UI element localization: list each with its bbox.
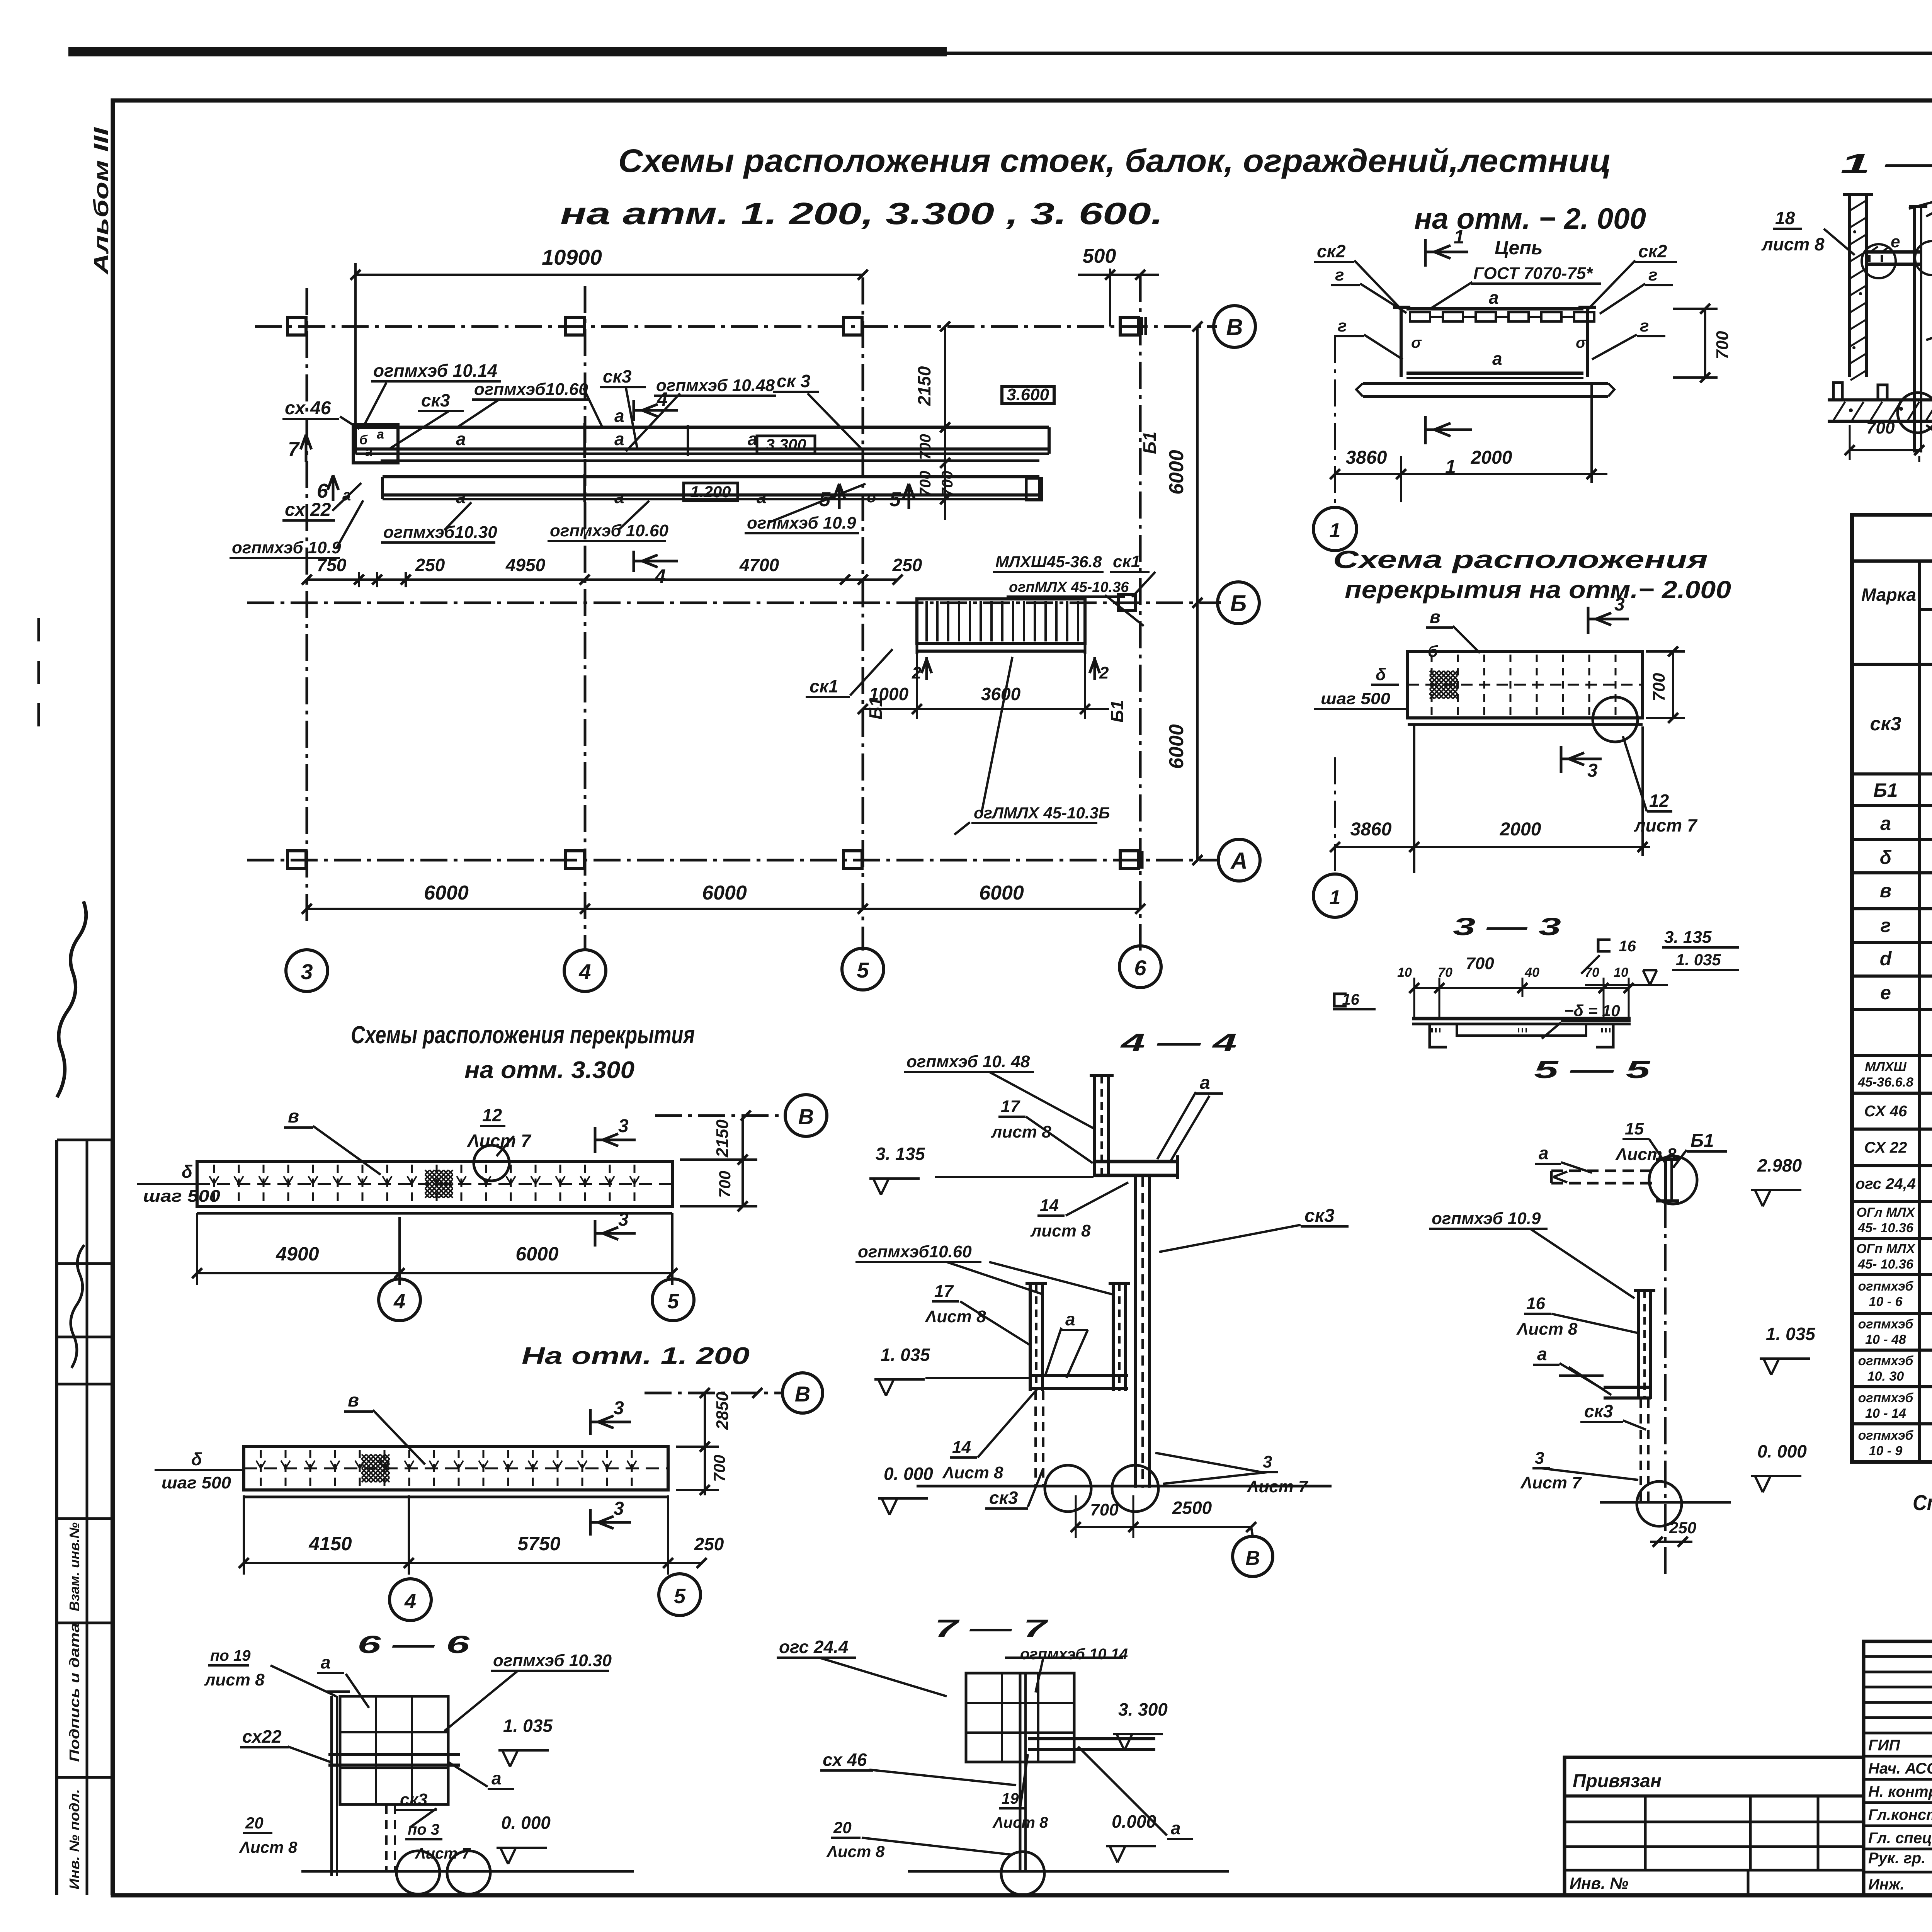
- svg-text:250: 250: [415, 555, 445, 575]
- svg-text:огпмхэб: огпмхэб: [1858, 1317, 1914, 1332]
- svg-text:1: 1: [1454, 226, 1464, 248]
- svg-text:3: 3: [1535, 1449, 1544, 1468]
- svg-text:2500: 2500: [1172, 1498, 1212, 1518]
- svg-text:3: 3: [1263, 1452, 1272, 1471]
- svg-text:10 - 48: 10 - 48: [1865, 1332, 1906, 1347]
- svg-text:лист 8: лист 8: [1030, 1221, 1091, 1240]
- svg-text:огпмхэб 10.30: огпмхэб 10.30: [493, 1651, 612, 1670]
- svg-text:2: 2: [1099, 663, 1109, 682]
- svg-text:в: в: [1430, 607, 1440, 627]
- svg-text:6000: 6000: [1165, 724, 1188, 769]
- svg-text:18: 18: [1775, 208, 1795, 228]
- svg-text:4: 4: [404, 1590, 416, 1613]
- svg-text:6000: 6000: [979, 882, 1024, 904]
- svg-text:Марка: Марка: [1861, 585, 1916, 605]
- svg-text:Схемы расположения стоек, б: Схемы расположения стоек, балок, огражде…: [618, 143, 1611, 179]
- svg-text:10900: 10900: [542, 245, 602, 269]
- svg-text:5: 5: [674, 1585, 686, 1608]
- svg-text:σ: σ: [1576, 334, 1587, 351]
- svg-text:700: 700: [1090, 1500, 1119, 1519]
- svg-text:лист 8: лист 8: [1761, 234, 1825, 254]
- svg-text:ск3: ск3: [989, 1488, 1018, 1508]
- svg-text:6000: 6000: [515, 1243, 558, 1265]
- svg-text:ск 3: ск 3: [777, 371, 811, 391]
- svg-text:0. 000: 0. 000: [501, 1813, 551, 1833]
- svg-text:а: а: [1489, 287, 1499, 308]
- svg-text:в: в: [348, 1390, 359, 1411]
- svg-text:700: 700: [917, 434, 934, 460]
- svg-text:е: е: [1880, 982, 1891, 1003]
- svg-text:Б1: Б1: [1873, 779, 1898, 801]
- svg-text:СХ 46: СХ 46: [1864, 1103, 1907, 1120]
- svg-text:250: 250: [892, 555, 922, 575]
- svg-text:На отм. 1. 200: На отм. 1. 200: [522, 1343, 750, 1369]
- svg-text:ск2: ск2: [1317, 241, 1346, 261]
- svg-text:а: а: [614, 406, 624, 426]
- svg-text:2000: 2000: [1471, 447, 1512, 468]
- svg-text:3.600: 3.600: [1007, 385, 1049, 404]
- svg-text:16: 16: [1526, 1294, 1545, 1313]
- svg-text:δ: δ: [191, 1449, 202, 1469]
- svg-text:сх 22: сх 22: [285, 500, 331, 520]
- svg-text:огпМЛХ 45-10.36: огпМЛХ 45-10.36: [1009, 579, 1129, 595]
- svg-text:огпмхэб: огпмхэб: [1858, 1428, 1914, 1443]
- svg-text:10 - 6: 10 - 6: [1869, 1294, 1903, 1309]
- svg-text:ск1: ск1: [810, 676, 838, 696]
- svg-text:Б1: Б1: [1107, 700, 1127, 723]
- svg-text:огпмхэб 10. 48: огпмхэб 10. 48: [906, 1052, 1030, 1071]
- svg-text:в: в: [1880, 880, 1891, 901]
- svg-text:Подпись и дата: Подпись и дата: [66, 1623, 82, 1762]
- svg-text:а: а: [1880, 813, 1891, 834]
- svg-text:огпмхэб 10.60: огпмхэб 10.60: [550, 521, 668, 540]
- svg-text:ГИП: ГИП: [1868, 1737, 1900, 1754]
- svg-text:4: 4: [578, 959, 591, 984]
- svg-text:Инв. №: Инв. №: [1570, 1874, 1628, 1892]
- svg-text:ск1: ск1: [1113, 552, 1140, 571]
- svg-text:ск3: ск3: [400, 1790, 427, 1809]
- svg-text:3 — 3: 3 — 3: [1453, 913, 1561, 940]
- svg-text:е: е: [1891, 232, 1900, 251]
- svg-text:В: В: [795, 1382, 810, 1406]
- svg-text:σ: σ: [867, 489, 878, 506]
- svg-text:огпмхэб 10.48: огпмхэб 10.48: [656, 376, 775, 395]
- svg-text:0. 000: 0. 000: [884, 1464, 933, 1484]
- svg-text:10 - 14: 10 - 14: [1865, 1406, 1906, 1421]
- svg-text:а: а: [1200, 1073, 1210, 1093]
- svg-text:огпмхэб10.60: огпмхэб10.60: [858, 1242, 972, 1261]
- svg-text:700: 700: [716, 1171, 734, 1198]
- svg-text:δ: δ: [1880, 847, 1892, 868]
- svg-text:огпмхэб: огпмхэб: [1858, 1279, 1914, 1294]
- svg-text:Λист 8: Λист 8: [1516, 1320, 1578, 1338]
- svg-text:1. 035: 1. 035: [881, 1345, 930, 1365]
- svg-text:а: а: [614, 429, 624, 449]
- svg-text:5 — 5: 5 — 5: [1534, 1056, 1651, 1083]
- svg-text:В: В: [1245, 1547, 1260, 1570]
- svg-text:на отм. − 2. 000: на отм. − 2. 000: [1414, 202, 1646, 235]
- svg-text:ОГп МЛХ: ОГп МЛХ: [1856, 1242, 1916, 1256]
- svg-text:Λист 8: Λист 8: [239, 1838, 298, 1856]
- svg-text:а: а: [1065, 1309, 1075, 1329]
- svg-text:В: В: [1226, 314, 1243, 340]
- svg-text:15: 15: [1625, 1119, 1644, 1138]
- svg-text:по 19: по 19: [210, 1647, 251, 1664]
- svg-text:δ: δ: [182, 1162, 193, 1182]
- svg-text:2150: 2150: [914, 366, 934, 406]
- svg-text:7: 7: [288, 438, 300, 461]
- svg-text:4900: 4900: [276, 1243, 319, 1265]
- svg-text:огЛМЛХ 45-10.3Б: огЛМЛХ 45-10.3Б: [974, 804, 1110, 822]
- svg-text:а: а: [365, 444, 372, 459]
- svg-text:6: 6: [317, 480, 328, 502]
- svg-text:а: а: [1539, 1143, 1549, 1163]
- svg-text:6: 6: [1134, 956, 1146, 980]
- svg-text:Взам. инв.№: Взам. инв.№: [66, 1522, 82, 1611]
- svg-text:500: 500: [1083, 245, 1116, 267]
- svg-text:Альбом III: Альбом III: [90, 127, 113, 276]
- svg-text:700: 700: [917, 471, 934, 497]
- svg-text:а: а: [456, 487, 466, 507]
- svg-text:4: 4: [655, 565, 666, 587]
- svg-text:а: а: [1171, 1818, 1181, 1838]
- svg-text:4 — 4: 4 — 4: [1119, 1029, 1237, 1056]
- svg-text:лист 8: лист 8: [991, 1122, 1051, 1141]
- svg-text:2.980: 2.980: [1757, 1155, 1802, 1175]
- svg-text:5750: 5750: [517, 1533, 560, 1554]
- svg-text:14: 14: [1040, 1196, 1059, 1215]
- svg-text:17: 17: [1001, 1097, 1020, 1116]
- svg-text:6000: 6000: [702, 882, 747, 904]
- svg-text:700: 700: [1713, 331, 1732, 359]
- svg-text:ск3: ск3: [603, 366, 632, 386]
- svg-text:700: 700: [1866, 418, 1895, 437]
- svg-text:Цепь: Цепь: [1495, 237, 1543, 259]
- svg-text:сх22: сх22: [242, 1726, 282, 1747]
- svg-text:17: 17: [934, 1282, 954, 1301]
- svg-text:−δ = 10: −δ = 10: [1564, 1002, 1620, 1020]
- svg-text:3: 3: [618, 1209, 629, 1230]
- svg-text:4150: 4150: [308, 1533, 352, 1554]
- svg-text:45- 10.36: 45- 10.36: [1857, 1221, 1914, 1235]
- svg-text:δ: δ: [1376, 665, 1386, 684]
- svg-text:20: 20: [833, 1818, 852, 1837]
- svg-text:огпмхэб10.60: огпмхэб10.60: [474, 380, 588, 399]
- svg-text:лист 8: лист 8: [204, 1670, 265, 1689]
- svg-text:10 - 9: 10 - 9: [1869, 1444, 1903, 1458]
- svg-text:3: 3: [618, 1116, 629, 1136]
- svg-text:по 3: по 3: [408, 1821, 439, 1838]
- svg-text:3.300: 3.300: [765, 435, 806, 454]
- svg-text:5: 5: [857, 958, 869, 982]
- svg-text:250: 250: [1669, 1519, 1696, 1537]
- svg-text:3600: 3600: [981, 684, 1021, 704]
- svg-text:г: г: [1335, 265, 1344, 284]
- svg-text:19: 19: [1002, 1790, 1019, 1807]
- svg-text:1.200: 1.200: [690, 483, 731, 501]
- svg-text:а: а: [1492, 349, 1502, 369]
- svg-text:20: 20: [245, 1814, 264, 1832]
- svg-text:огпмхэб: огпмхэб: [1858, 1391, 1914, 1405]
- svg-text:Гл.констр.: Гл.констр.: [1868, 1806, 1932, 1823]
- svg-text:40: 40: [1524, 965, 1539, 980]
- svg-text:а: а: [1537, 1344, 1547, 1364]
- svg-text:Н. контр.: Н. контр.: [1868, 1783, 1932, 1800]
- svg-text:Б1: Б1: [1139, 432, 1160, 454]
- svg-text:б: б: [1428, 642, 1438, 660]
- svg-text:В: В: [798, 1104, 814, 1129]
- svg-text:на отм. 3.300: на отм. 3.300: [464, 1057, 634, 1083]
- svg-text:огпмхэб 10.14: огпмхэб 10.14: [1020, 1646, 1128, 1663]
- svg-text:Λист 8: Λист 8: [942, 1463, 1003, 1482]
- svg-text:700: 700: [1650, 673, 1668, 701]
- svg-text:МЛХШ45-36.8: МЛХШ45-36.8: [995, 553, 1102, 571]
- svg-text:огпмхэб 10.9: огпмхэб 10.9: [747, 514, 856, 532]
- svg-text:Инв. № подл.: Инв. № подл.: [66, 1789, 82, 1889]
- svg-text:10: 10: [1397, 965, 1412, 980]
- svg-text:1: 1: [1330, 886, 1341, 909]
- svg-text:шаг 500: шаг 500: [1321, 689, 1390, 707]
- svg-text:3. 135: 3. 135: [1664, 928, 1712, 947]
- svg-text:а: а: [456, 429, 466, 449]
- svg-text:3. 300: 3. 300: [1118, 1699, 1168, 1719]
- svg-text:10: 10: [1614, 965, 1628, 980]
- svg-text:700: 700: [939, 471, 956, 497]
- svg-text:огпмхэб 10.14: огпмхэб 10.14: [373, 361, 497, 381]
- svg-text:Рук. гр.: Рук. гр.: [1868, 1850, 1925, 1867]
- svg-text:а: а: [614, 487, 624, 507]
- svg-text:3860: 3860: [1346, 447, 1387, 468]
- svg-text:ск3: ск3: [1584, 1401, 1613, 1421]
- svg-text:Λист 8: Λист 8: [826, 1842, 885, 1861]
- svg-text:на атм. 1. 200, 3.300 , 3.: на атм. 1. 200, 3.300 , 3. 600.: [560, 196, 1163, 231]
- svg-text:1000: 1000: [869, 684, 909, 704]
- svg-text:а: а: [757, 487, 767, 507]
- svg-text:0.000: 0.000: [1112, 1811, 1156, 1832]
- svg-text:σ: σ: [1411, 334, 1422, 351]
- svg-text:ск2: ск2: [1638, 241, 1667, 261]
- svg-text:огпмхэб: огпмхэб: [1858, 1354, 1914, 1368]
- svg-text:3860: 3860: [1350, 819, 1392, 840]
- svg-text:Инж.: Инж.: [1868, 1876, 1905, 1893]
- svg-text:г: г: [1648, 265, 1657, 284]
- svg-text:Гл. спец.: Гл. спец.: [1868, 1830, 1932, 1847]
- svg-text:сх 46: сх 46: [285, 398, 331, 418]
- svg-text:5: 5: [667, 1290, 679, 1313]
- svg-text:d: d: [1880, 948, 1892, 969]
- svg-text:3. 135: 3. 135: [876, 1144, 925, 1164]
- svg-text:3: 3: [614, 1498, 624, 1519]
- svg-text:Стойку СК2 смотреть лист 4: Стойку СК2 смотреть лист 4: [1913, 1490, 1932, 1515]
- svg-text:6000: 6000: [424, 882, 469, 904]
- svg-text:1. 035: 1. 035: [1766, 1324, 1816, 1344]
- svg-text:Схемы расположения перекрыти: Схемы расположения перекрытия: [351, 1021, 695, 1049]
- svg-text:шаг 500: шаг 500: [143, 1187, 221, 1206]
- svg-text:1. 035: 1. 035: [503, 1716, 553, 1736]
- svg-text:1: 1: [1330, 519, 1341, 542]
- svg-text:10. 30: 10. 30: [1867, 1369, 1904, 1384]
- svg-text:4: 4: [393, 1290, 405, 1313]
- svg-text:ск3: ск3: [1304, 1206, 1335, 1226]
- svg-text:0. 000: 0. 000: [1757, 1441, 1807, 1461]
- svg-text:4700: 4700: [739, 555, 779, 575]
- svg-text:сх 46: сх 46: [823, 1750, 867, 1770]
- svg-text:16: 16: [1614, 938, 1636, 955]
- svg-text:а: а: [377, 427, 384, 442]
- svg-text:ск3: ск3: [421, 390, 450, 410]
- svg-text:огпмхэб 10.9: огпмхэб 10.9: [232, 538, 341, 557]
- svg-text:700: 700: [1466, 954, 1494, 973]
- svg-text:МЛХШ: МЛХШ: [1865, 1060, 1906, 1074]
- svg-text:1. 035: 1. 035: [1676, 951, 1721, 969]
- svg-text:Λист 7: Λист 7: [415, 1845, 471, 1862]
- svg-text:А: А: [1230, 848, 1247, 874]
- svg-text:ГОСТ 7070-75*: ГОСТ 7070-75*: [1473, 264, 1593, 283]
- svg-text:14: 14: [952, 1438, 971, 1457]
- svg-text:Б1: Б1: [1690, 1131, 1714, 1151]
- svg-text:огпмхэб 10.9: огпмхэб 10.9: [1432, 1209, 1541, 1228]
- svg-text:Б: Б: [1230, 590, 1247, 616]
- svg-text:в: в: [288, 1106, 299, 1127]
- svg-text:ОГл МЛХ: ОГл МЛХ: [1857, 1205, 1916, 1220]
- svg-text:2000: 2000: [1500, 819, 1541, 840]
- svg-text:45- 10.36: 45- 10.36: [1857, 1257, 1914, 1272]
- svg-text:12: 12: [482, 1105, 502, 1125]
- svg-text:5: 5: [889, 488, 901, 511]
- svg-text:ск3: ск3: [1870, 713, 1901, 735]
- svg-text:СХ 22: СХ 22: [1864, 1139, 1907, 1156]
- svg-text:перекрытия на отм.− 2.000: перекрытия на отм.− 2.000: [1345, 576, 1731, 604]
- svg-text:огс 24,4: огс 24,4: [1855, 1175, 1916, 1192]
- svg-text:700: 700: [710, 1455, 728, 1482]
- svg-text:3: 3: [301, 959, 313, 984]
- svg-text:750: 750: [317, 555, 347, 575]
- svg-text:Привязан: Привязан: [1573, 1771, 1662, 1791]
- svg-text:Λист 7: Λист 7: [1520, 1473, 1582, 1492]
- svg-text:Нач. АСО: Нач. АСО: [1868, 1760, 1932, 1777]
- svg-text:2850: 2850: [713, 1392, 732, 1430]
- svg-text:Λист 8: Λист 8: [1615, 1145, 1677, 1164]
- svg-text:4950: 4950: [505, 555, 546, 575]
- svg-text:шаг 500: шаг 500: [162, 1473, 231, 1492]
- svg-text:Λист 8: Λист 8: [992, 1814, 1048, 1831]
- svg-text:г: г: [1640, 316, 1649, 335]
- svg-text:6000: 6000: [1165, 450, 1188, 495]
- svg-text:45-36.6.8: 45-36.6.8: [1857, 1075, 1913, 1090]
- svg-text:2150: 2150: [713, 1119, 732, 1158]
- svg-text:а: а: [492, 1768, 502, 1788]
- svg-text:огс 24.4: огс 24.4: [779, 1637, 848, 1657]
- svg-text:а: а: [321, 1652, 331, 1672]
- svg-text:3: 3: [1614, 594, 1625, 615]
- svg-text:Λист 8: Λист 8: [925, 1307, 986, 1326]
- svg-text:г: г: [1338, 316, 1347, 335]
- svg-text:3: 3: [1587, 760, 1598, 781]
- svg-text:огпмхэб10.30: огпмхэб10.30: [383, 523, 497, 542]
- svg-text:1 — 1: 1 — 1: [1840, 148, 1932, 179]
- svg-text:г: г: [1881, 915, 1891, 936]
- svg-text:250: 250: [694, 1534, 724, 1554]
- svg-text:12: 12: [1649, 791, 1669, 811]
- svg-text:6 — 6: 6 — 6: [357, 1631, 470, 1658]
- svg-text:7 — 7: 7 — 7: [935, 1614, 1049, 1642]
- svg-text:3: 3: [614, 1398, 624, 1418]
- svg-text:Схема расположения: Схема расположения: [1333, 546, 1708, 573]
